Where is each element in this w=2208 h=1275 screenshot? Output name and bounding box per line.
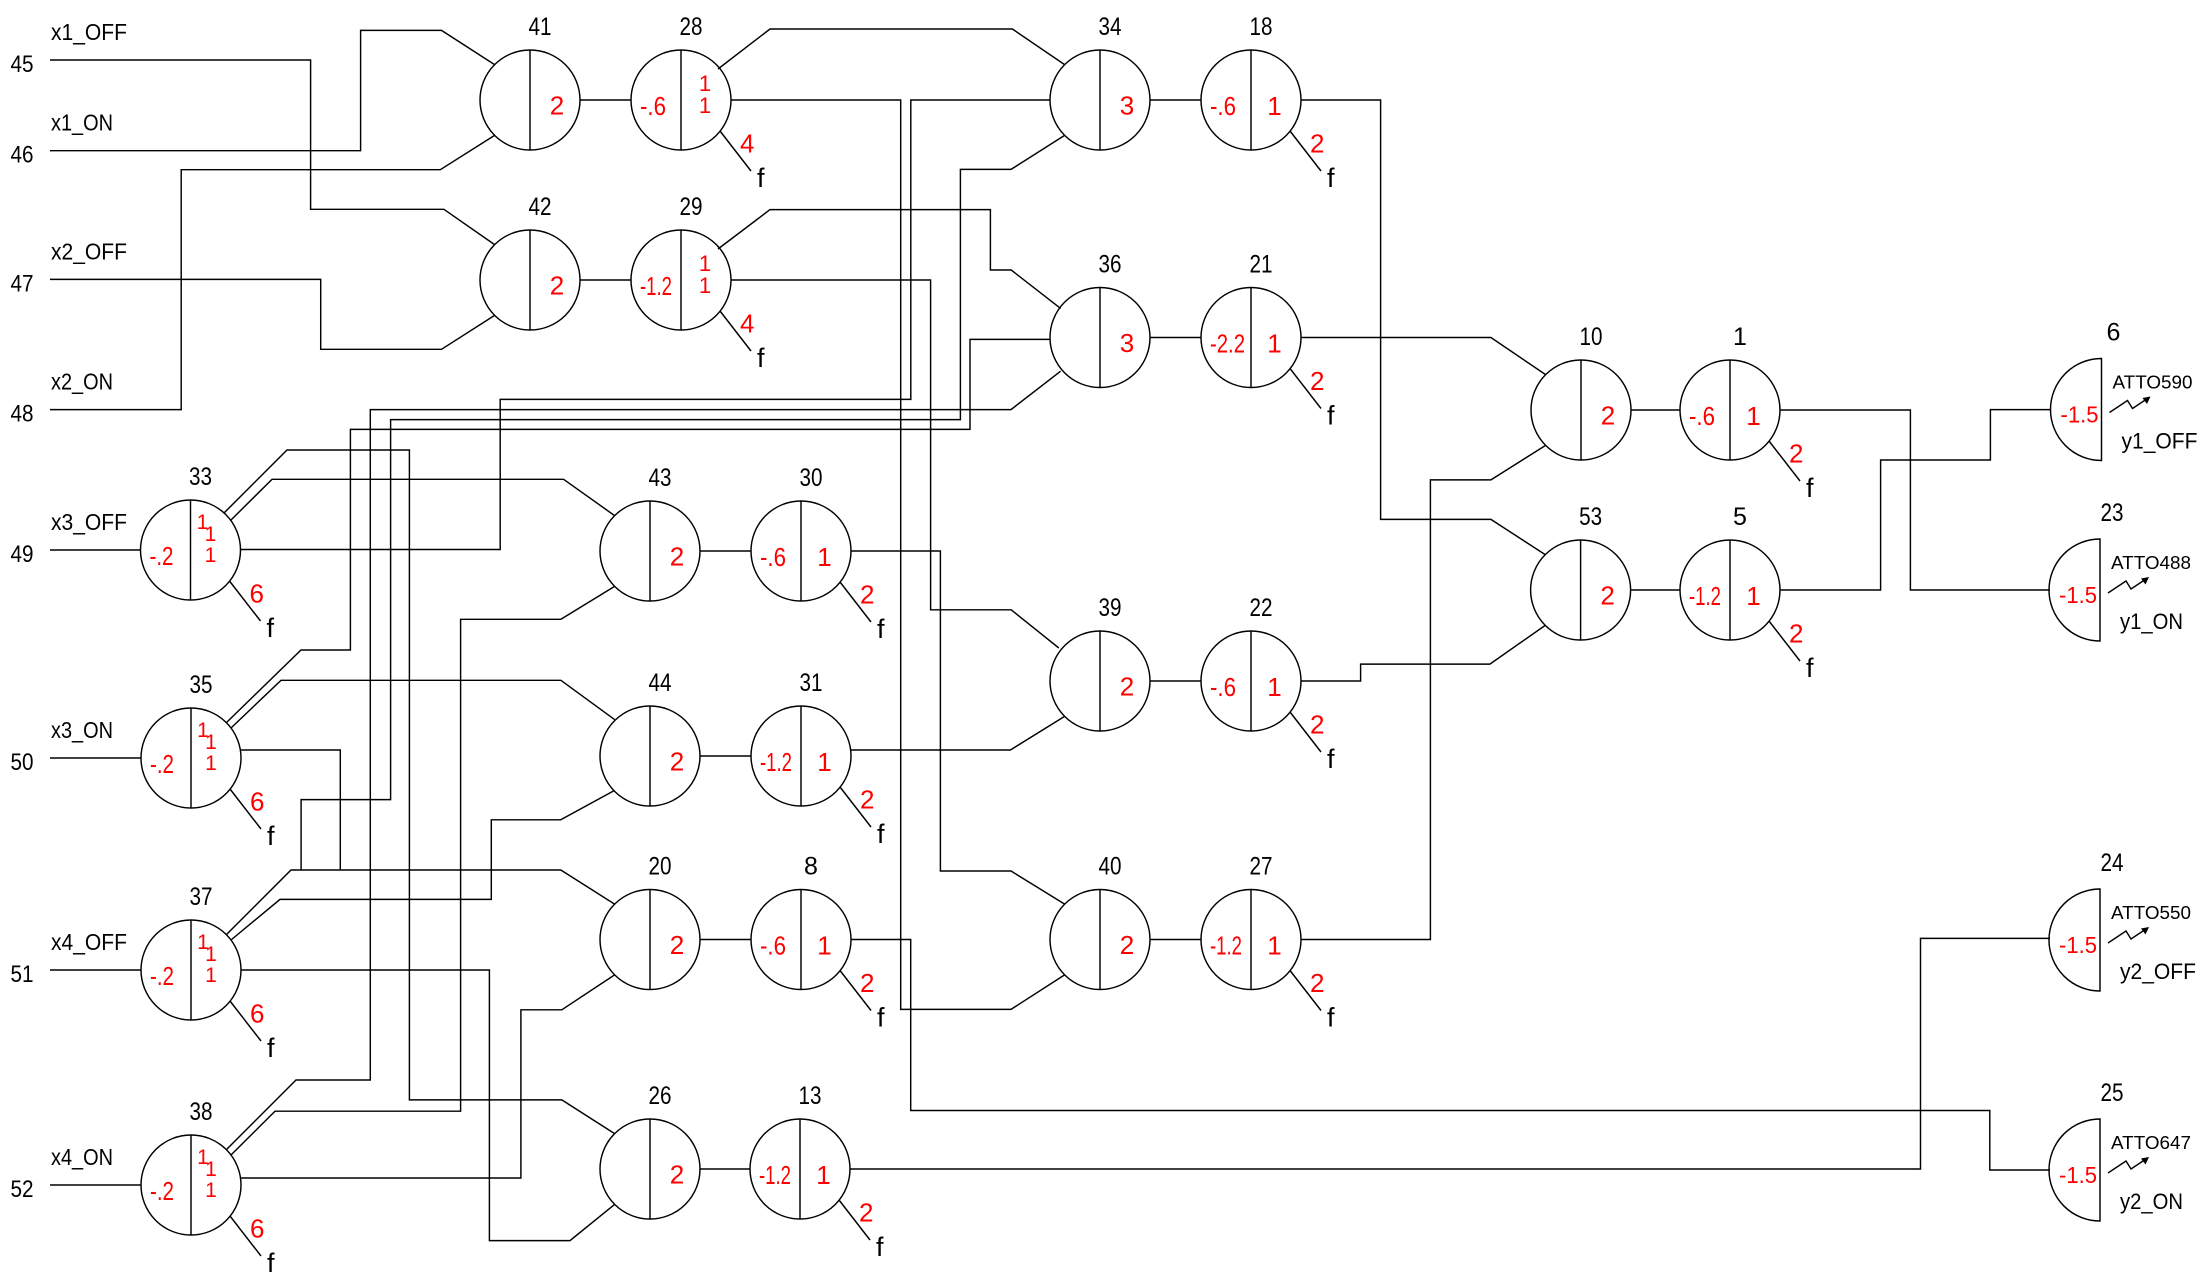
wire gate 8 to output 25 <box>851 940 2050 1171</box>
wire gate 42 to gate 29 <box>580 279 631 281</box>
svg-text:47: 47 <box>11 270 34 297</box>
svg-text:1: 1 <box>699 273 711 298</box>
svg-text:1: 1 <box>1267 672 1281 702</box>
input label 50 x3_ON <box>11 717 114 776</box>
svg-text:-1.5: -1.5 <box>2059 932 2097 958</box>
svg-text:2: 2 <box>1310 366 1324 396</box>
svg-text:f: f <box>267 1033 275 1063</box>
svg-text:-.2: -.2 <box>150 1176 174 1206</box>
gate 44 <box>600 669 700 806</box>
gate 13 <box>750 1082 850 1219</box>
svg-text:24: 24 <box>2101 849 2124 877</box>
wire gate 41 to gate 28 <box>580 99 631 101</box>
svg-text:1: 1 <box>205 1179 217 1202</box>
wire gate 28 to gate 40 lower <box>731 100 1065 1009</box>
svg-text:-1.5: -1.5 <box>2059 1162 2097 1188</box>
wire x1_ON input 46 to gate 41 upper <box>50 30 495 150</box>
output gate 25 y2_ON ATTO647 <box>2049 1079 2191 1221</box>
svg-text:2: 2 <box>1601 401 1615 431</box>
fuel line gate 27 <box>1290 968 1335 1033</box>
svg-text:2: 2 <box>1310 710 1324 740</box>
fuel line gate 18 <box>1290 129 1335 194</box>
wire x2_OFF input 47 to gate 42 lower <box>50 279 495 349</box>
svg-text:-.2: -.2 <box>150 541 174 571</box>
svg-text:f: f <box>1806 653 1814 683</box>
gate 37 <box>141 883 241 1020</box>
wire gate 35 to gate 44 upper <box>231 680 615 728</box>
wire gate 36 to gate 21 <box>1150 337 1201 339</box>
svg-text:ATTO550: ATTO550 <box>2111 902 2191 923</box>
svg-text:49: 49 <box>11 541 34 568</box>
fuel line gate 28 <box>720 129 765 194</box>
svg-text:2: 2 <box>670 542 684 572</box>
svg-text:2: 2 <box>859 1198 873 1228</box>
gate 8 <box>751 853 851 990</box>
svg-text:x2_OFF: x2_OFF <box>51 238 127 264</box>
gate 36 <box>1050 251 1150 388</box>
svg-text:x4_ON: x4_ON <box>51 1144 113 1170</box>
input label 51 x4_OFF <box>11 929 128 988</box>
gate 43 <box>600 464 700 601</box>
svg-text:-.6: -.6 <box>640 91 666 121</box>
fuel line gate 8 <box>840 968 885 1033</box>
fuel line gate 5 <box>1769 619 1814 684</box>
svg-text:2: 2 <box>550 271 564 301</box>
svg-text:4: 4 <box>740 309 754 339</box>
svg-text:2: 2 <box>670 747 684 777</box>
gate 22 <box>1201 594 1301 731</box>
wire gate 26 to gate 13 <box>700 1168 750 1170</box>
gate 40 <box>1050 853 1150 990</box>
svg-text:f: f <box>1806 473 1814 503</box>
wire gate 34 to gate 18 <box>1150 99 1201 101</box>
svg-text:26: 26 <box>649 1082 672 1110</box>
svg-text:34: 34 <box>1099 13 1122 41</box>
svg-text:52: 52 <box>11 1176 34 1203</box>
svg-text:-.6: -.6 <box>1210 91 1236 121</box>
svg-text:-.6: -.6 <box>1689 401 1715 431</box>
svg-text:50: 50 <box>11 749 34 776</box>
wire gate 20 to gate 8 <box>700 939 751 941</box>
svg-text:f: f <box>267 613 275 643</box>
fuel line gate 30 <box>840 580 885 645</box>
svg-text:f: f <box>267 1248 275 1275</box>
fuel line gate 22 <box>1290 710 1335 775</box>
wire gate 38 to gate 43 lower <box>231 586 615 1155</box>
gate 41 <box>480 13 580 150</box>
svg-text:43: 43 <box>649 464 672 492</box>
wire gate 33 to gate 26 upper <box>224 450 615 1134</box>
wire x4_OFF input 51 to gate 37 <box>50 969 141 971</box>
wire gate 1 to output 23 <box>1780 410 2050 590</box>
svg-text:2: 2 <box>670 1160 684 1190</box>
svg-text:33: 33 <box>189 463 212 491</box>
gate 5 <box>1680 503 1780 640</box>
wire x4_ON input 52 to gate 38 <box>50 1184 141 1186</box>
wire x1_OFF input 45 to gate 42 upper <box>50 60 495 245</box>
svg-text:1: 1 <box>205 523 217 546</box>
svg-text:x4_OFF: x4_OFF <box>51 929 127 955</box>
input label 47 x2_OFF <box>11 238 128 297</box>
svg-text:-.2: -.2 <box>150 961 174 991</box>
svg-text:2: 2 <box>670 930 684 960</box>
wire gate 37 to gate 26 lower <box>241 970 615 1241</box>
svg-text:2: 2 <box>860 968 874 998</box>
svg-text:1: 1 <box>817 747 831 777</box>
svg-text:x1_ON: x1_ON <box>51 110 113 136</box>
svg-text:2: 2 <box>1789 439 1803 469</box>
svg-text:1: 1 <box>1267 329 1281 359</box>
wire gate 53 to gate 5 <box>1631 589 1680 591</box>
wire gate 39 to gate 22 <box>1150 680 1201 682</box>
svg-text:1: 1 <box>1267 931 1281 961</box>
svg-text:-1.5: -1.5 <box>2061 402 2099 428</box>
gate 33 <box>141 463 241 600</box>
svg-text:-1.2: -1.2 <box>760 747 792 777</box>
svg-text:f: f <box>757 163 765 193</box>
svg-text:-1.2: -1.2 <box>640 271 672 301</box>
svg-text:37: 37 <box>190 883 213 911</box>
svg-text:1: 1 <box>699 93 711 118</box>
svg-text:21: 21 <box>1250 251 1273 279</box>
gate 35 <box>141 671 241 808</box>
svg-text:ATTO647: ATTO647 <box>2111 1132 2191 1153</box>
gate 42 <box>480 193 580 330</box>
svg-text:f: f <box>1327 1003 1335 1033</box>
svg-text:6: 6 <box>250 1214 264 1244</box>
svg-text:3: 3 <box>1120 328 1134 358</box>
svg-text:44: 44 <box>649 669 672 697</box>
fuel line gate 21 <box>1290 366 1335 431</box>
gate 53 <box>1531 503 1631 640</box>
gate 34 <box>1050 13 1150 150</box>
svg-text:y1_ON: y1_ON <box>2120 609 2183 634</box>
wire x3_OFF input 49 to gate 33 <box>50 549 141 551</box>
gate 27 <box>1201 853 1301 990</box>
gate 30 <box>751 464 851 601</box>
svg-text:f: f <box>877 614 885 644</box>
svg-text:30: 30 <box>800 464 823 492</box>
wire gate 22 to gate 53 lower <box>1301 625 1545 681</box>
wire gate 5 to output 6 <box>1780 410 2051 590</box>
svg-text:46: 46 <box>11 142 34 169</box>
svg-text:x3_OFF: x3_OFF <box>51 509 127 535</box>
fuel line gate 33 <box>230 579 275 644</box>
svg-text:1: 1 <box>816 1160 830 1190</box>
wire gate 29 to gate 39 upper <box>731 280 1059 648</box>
fuel line gate 37 <box>230 999 275 1064</box>
svg-text:6: 6 <box>250 787 264 817</box>
svg-text:2: 2 <box>1600 581 1614 611</box>
svg-text:f: f <box>1327 401 1335 431</box>
svg-text:3: 3 <box>1120 91 1134 121</box>
svg-text:51: 51 <box>11 961 34 988</box>
svg-text:1: 1 <box>205 544 217 567</box>
wire gate 21 to gate 10 upper <box>1301 338 1546 375</box>
svg-text:-.2: -.2 <box>150 749 174 779</box>
wire gate 43 to gate 30 <box>700 550 751 552</box>
svg-text:1: 1 <box>1746 401 1760 431</box>
output gate 23 y1_ON ATTO488 <box>2049 499 2191 641</box>
svg-text:2: 2 <box>1120 672 1134 702</box>
fuel line gate 38 <box>230 1214 275 1275</box>
svg-text:31: 31 <box>800 669 823 697</box>
svg-text:29: 29 <box>680 193 703 221</box>
output gate 6 y1_OFF ATTO590 <box>2051 319 2198 461</box>
svg-text:35: 35 <box>190 671 213 699</box>
svg-text:-1.5: -1.5 <box>2059 582 2097 608</box>
gate 39 <box>1050 594 1150 731</box>
wire gate 35 to gate 36 left <box>226 339 1050 723</box>
svg-text:1: 1 <box>205 731 217 754</box>
svg-text:1: 1 <box>817 931 831 961</box>
wire gate 29 to gate 36 upper <box>718 210 1061 309</box>
svg-text:6: 6 <box>250 579 264 609</box>
svg-text:ATTO590: ATTO590 <box>2113 372 2193 393</box>
wire gate 35 output down to node 870 <box>241 750 340 870</box>
svg-text:6: 6 <box>2107 319 2121 347</box>
svg-text:2: 2 <box>1310 968 1324 998</box>
svg-text:2: 2 <box>550 91 564 121</box>
wire gate 44 to gate 31 <box>700 755 751 757</box>
wire gate 40 to gate 27 <box>1150 939 1201 941</box>
gate 21 <box>1201 251 1301 388</box>
svg-text:y1_OFF: y1_OFF <box>2122 429 2198 454</box>
svg-text:2: 2 <box>1120 930 1134 960</box>
svg-text:53: 53 <box>1579 503 1602 531</box>
gate 38 <box>141 1098 241 1235</box>
wire branch gate 37 to gate 34 lower <box>301 135 1065 870</box>
svg-text:8: 8 <box>804 853 818 881</box>
wire x3_ON input 50 to gate 35 <box>50 757 141 759</box>
svg-text:23: 23 <box>2101 499 2124 527</box>
svg-text:18: 18 <box>1250 13 1273 41</box>
wire gate 37 to gate 44 lower <box>231 790 615 940</box>
svg-text:39: 39 <box>1099 594 1122 622</box>
input label 52 x4_ON <box>11 1144 114 1203</box>
gate 1 <box>1680 323 1780 460</box>
gate 18 <box>1201 13 1301 150</box>
svg-text:f: f <box>877 1003 885 1033</box>
svg-text:40: 40 <box>1099 853 1122 881</box>
svg-text:27: 27 <box>1250 853 1273 881</box>
svg-text:25: 25 <box>2101 1079 2124 1107</box>
output gate 24 y2_OFF ATTO550 <box>2049 849 2196 991</box>
gate 29 <box>631 193 731 330</box>
svg-text:-.6: -.6 <box>760 542 786 572</box>
svg-text:-2.2: -2.2 <box>1210 329 1245 359</box>
input label 46 x1_ON <box>11 110 114 169</box>
wire gate 31 to gate 39 lower <box>851 716 1065 750</box>
svg-text:48: 48 <box>11 401 34 428</box>
svg-text:2: 2 <box>1310 129 1324 159</box>
svg-text:28: 28 <box>680 13 703 41</box>
wire gate 13 to output 24 <box>850 938 2050 1169</box>
svg-text:2: 2 <box>860 785 874 815</box>
wire gate 33 to gate 43 upper <box>231 479 615 520</box>
gate 20 <box>600 853 700 990</box>
svg-text:45: 45 <box>11 51 34 78</box>
svg-text:1: 1 <box>205 1158 217 1181</box>
svg-text:1: 1 <box>205 943 217 966</box>
svg-text:-1.2: -1.2 <box>1210 931 1242 961</box>
fuel line gate 29 <box>720 309 765 374</box>
wire gate 30 to gate 40 upper <box>851 551 1065 904</box>
svg-text:38: 38 <box>190 1098 213 1126</box>
svg-text:f: f <box>267 821 275 851</box>
wire gate 18 to gate 53 upper <box>1301 100 1545 555</box>
svg-text:36: 36 <box>1099 251 1122 279</box>
svg-text:6: 6 <box>250 999 264 1029</box>
wire gate 37 to gate 20 upper <box>226 870 615 935</box>
svg-text:1: 1 <box>1733 323 1747 351</box>
wire gate 27 to gate 10 lower <box>1301 445 1546 939</box>
svg-text:f: f <box>1327 744 1335 774</box>
svg-text:ATTO488: ATTO488 <box>2111 552 2191 573</box>
svg-text:-1.2: -1.2 <box>1689 581 1721 611</box>
svg-text:f: f <box>757 343 765 373</box>
svg-text:x2_ON: x2_ON <box>51 369 113 395</box>
svg-text:10: 10 <box>1580 323 1603 351</box>
wire gate 38 to gate 36 lower <box>226 371 1061 1150</box>
svg-text:-1.2: -1.2 <box>759 1160 791 1190</box>
svg-text:x1_OFF: x1_OFF <box>51 19 127 45</box>
svg-text:f: f <box>876 1232 884 1262</box>
svg-text:5: 5 <box>1733 503 1747 531</box>
svg-text:1: 1 <box>205 752 217 775</box>
wire gate 10 to gate 1 <box>1631 409 1680 411</box>
svg-text:y2_OFF: y2_OFF <box>2120 959 2196 984</box>
svg-text:1: 1 <box>817 542 831 572</box>
svg-text:20: 20 <box>649 853 672 881</box>
svg-text:22: 22 <box>1250 594 1273 622</box>
svg-text:1: 1 <box>205 964 217 987</box>
svg-text:2: 2 <box>860 580 874 610</box>
input label 45 x1_OFF <box>11 19 128 78</box>
svg-text:42: 42 <box>529 193 552 221</box>
svg-text:f: f <box>1327 163 1335 193</box>
svg-text:41: 41 <box>529 13 552 41</box>
svg-text:4: 4 <box>740 129 754 159</box>
gate 10 <box>1531 323 1631 460</box>
svg-text:13: 13 <box>799 1082 822 1110</box>
input label 48 x2_ON <box>11 369 114 428</box>
fuel line gate 13 <box>839 1198 884 1263</box>
wire gate 28 to gate 34 upper <box>718 29 1065 69</box>
svg-text:x3_ON: x3_ON <box>51 717 113 743</box>
input label 49 x3_OFF <box>11 509 128 568</box>
wire x2_ON input 48 to gate 41 lower <box>50 135 495 409</box>
fuel line gate 31 <box>840 785 885 850</box>
svg-text:-.6: -.6 <box>1210 672 1236 702</box>
svg-text:f: f <box>877 819 885 849</box>
svg-text:1: 1 <box>1267 91 1281 121</box>
fuel line gate 35 <box>230 787 275 852</box>
svg-text:2: 2 <box>1789 619 1803 649</box>
gate 26 <box>600 1082 700 1219</box>
gate 28 <box>631 13 731 150</box>
wire gate 33 to gate 34 left <box>241 100 1050 550</box>
svg-text:-.6: -.6 <box>760 931 786 961</box>
gate 31 <box>751 669 851 806</box>
fuel line gate 1 <box>1769 439 1814 504</box>
svg-text:y2_ON: y2_ON <box>2120 1189 2183 1214</box>
svg-text:1: 1 <box>1746 581 1760 611</box>
wire gate 38 to gate 20 lower <box>241 975 615 1178</box>
